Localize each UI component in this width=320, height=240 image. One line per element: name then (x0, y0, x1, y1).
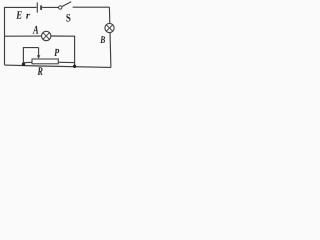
wire: bottom wire (5, 65, 112, 67)
rheostat slider arrow stem (38, 48, 40, 57)
wire: battery to switch (42, 6, 59, 8)
junction dot left (22, 62, 25, 65)
rheostat slider arrowhead (37, 55, 40, 59)
label r (26, 14, 30, 19)
wire: slider branch (down-left of P) (23, 48, 38, 65)
label E (16, 11, 21, 18)
battery short plate (negative) (40, 5, 42, 9)
label R (38, 67, 43, 75)
wire: middle branch left (left edge to lamp A) (5, 35, 42, 37)
lamp B cross (106, 25, 112, 31)
lamp B circle (105, 23, 114, 32)
switch S lever (62, 2, 71, 7)
label S (66, 14, 70, 22)
wire: right edge (through lamp B) (109, 7, 111, 67)
label P (54, 49, 59, 56)
label B (100, 36, 105, 43)
resistor R body (32, 59, 58, 64)
wire: switch to top-right corner (73, 6, 110, 8)
switch S contact circle (59, 6, 62, 9)
battery long plate (positive) (36, 2, 38, 12)
wire: top left segment (battery to left corner) (5, 7, 37, 65)
junction dot right (73, 65, 76, 68)
wire: resistor right lead (58, 61, 74, 63)
lamp A cross (43, 33, 50, 40)
label A (33, 26, 39, 34)
wire: resistor left lead (23, 61, 32, 63)
lamp A circle (42, 31, 51, 40)
wire: middle branch right + drop to bottom (51, 36, 75, 66)
